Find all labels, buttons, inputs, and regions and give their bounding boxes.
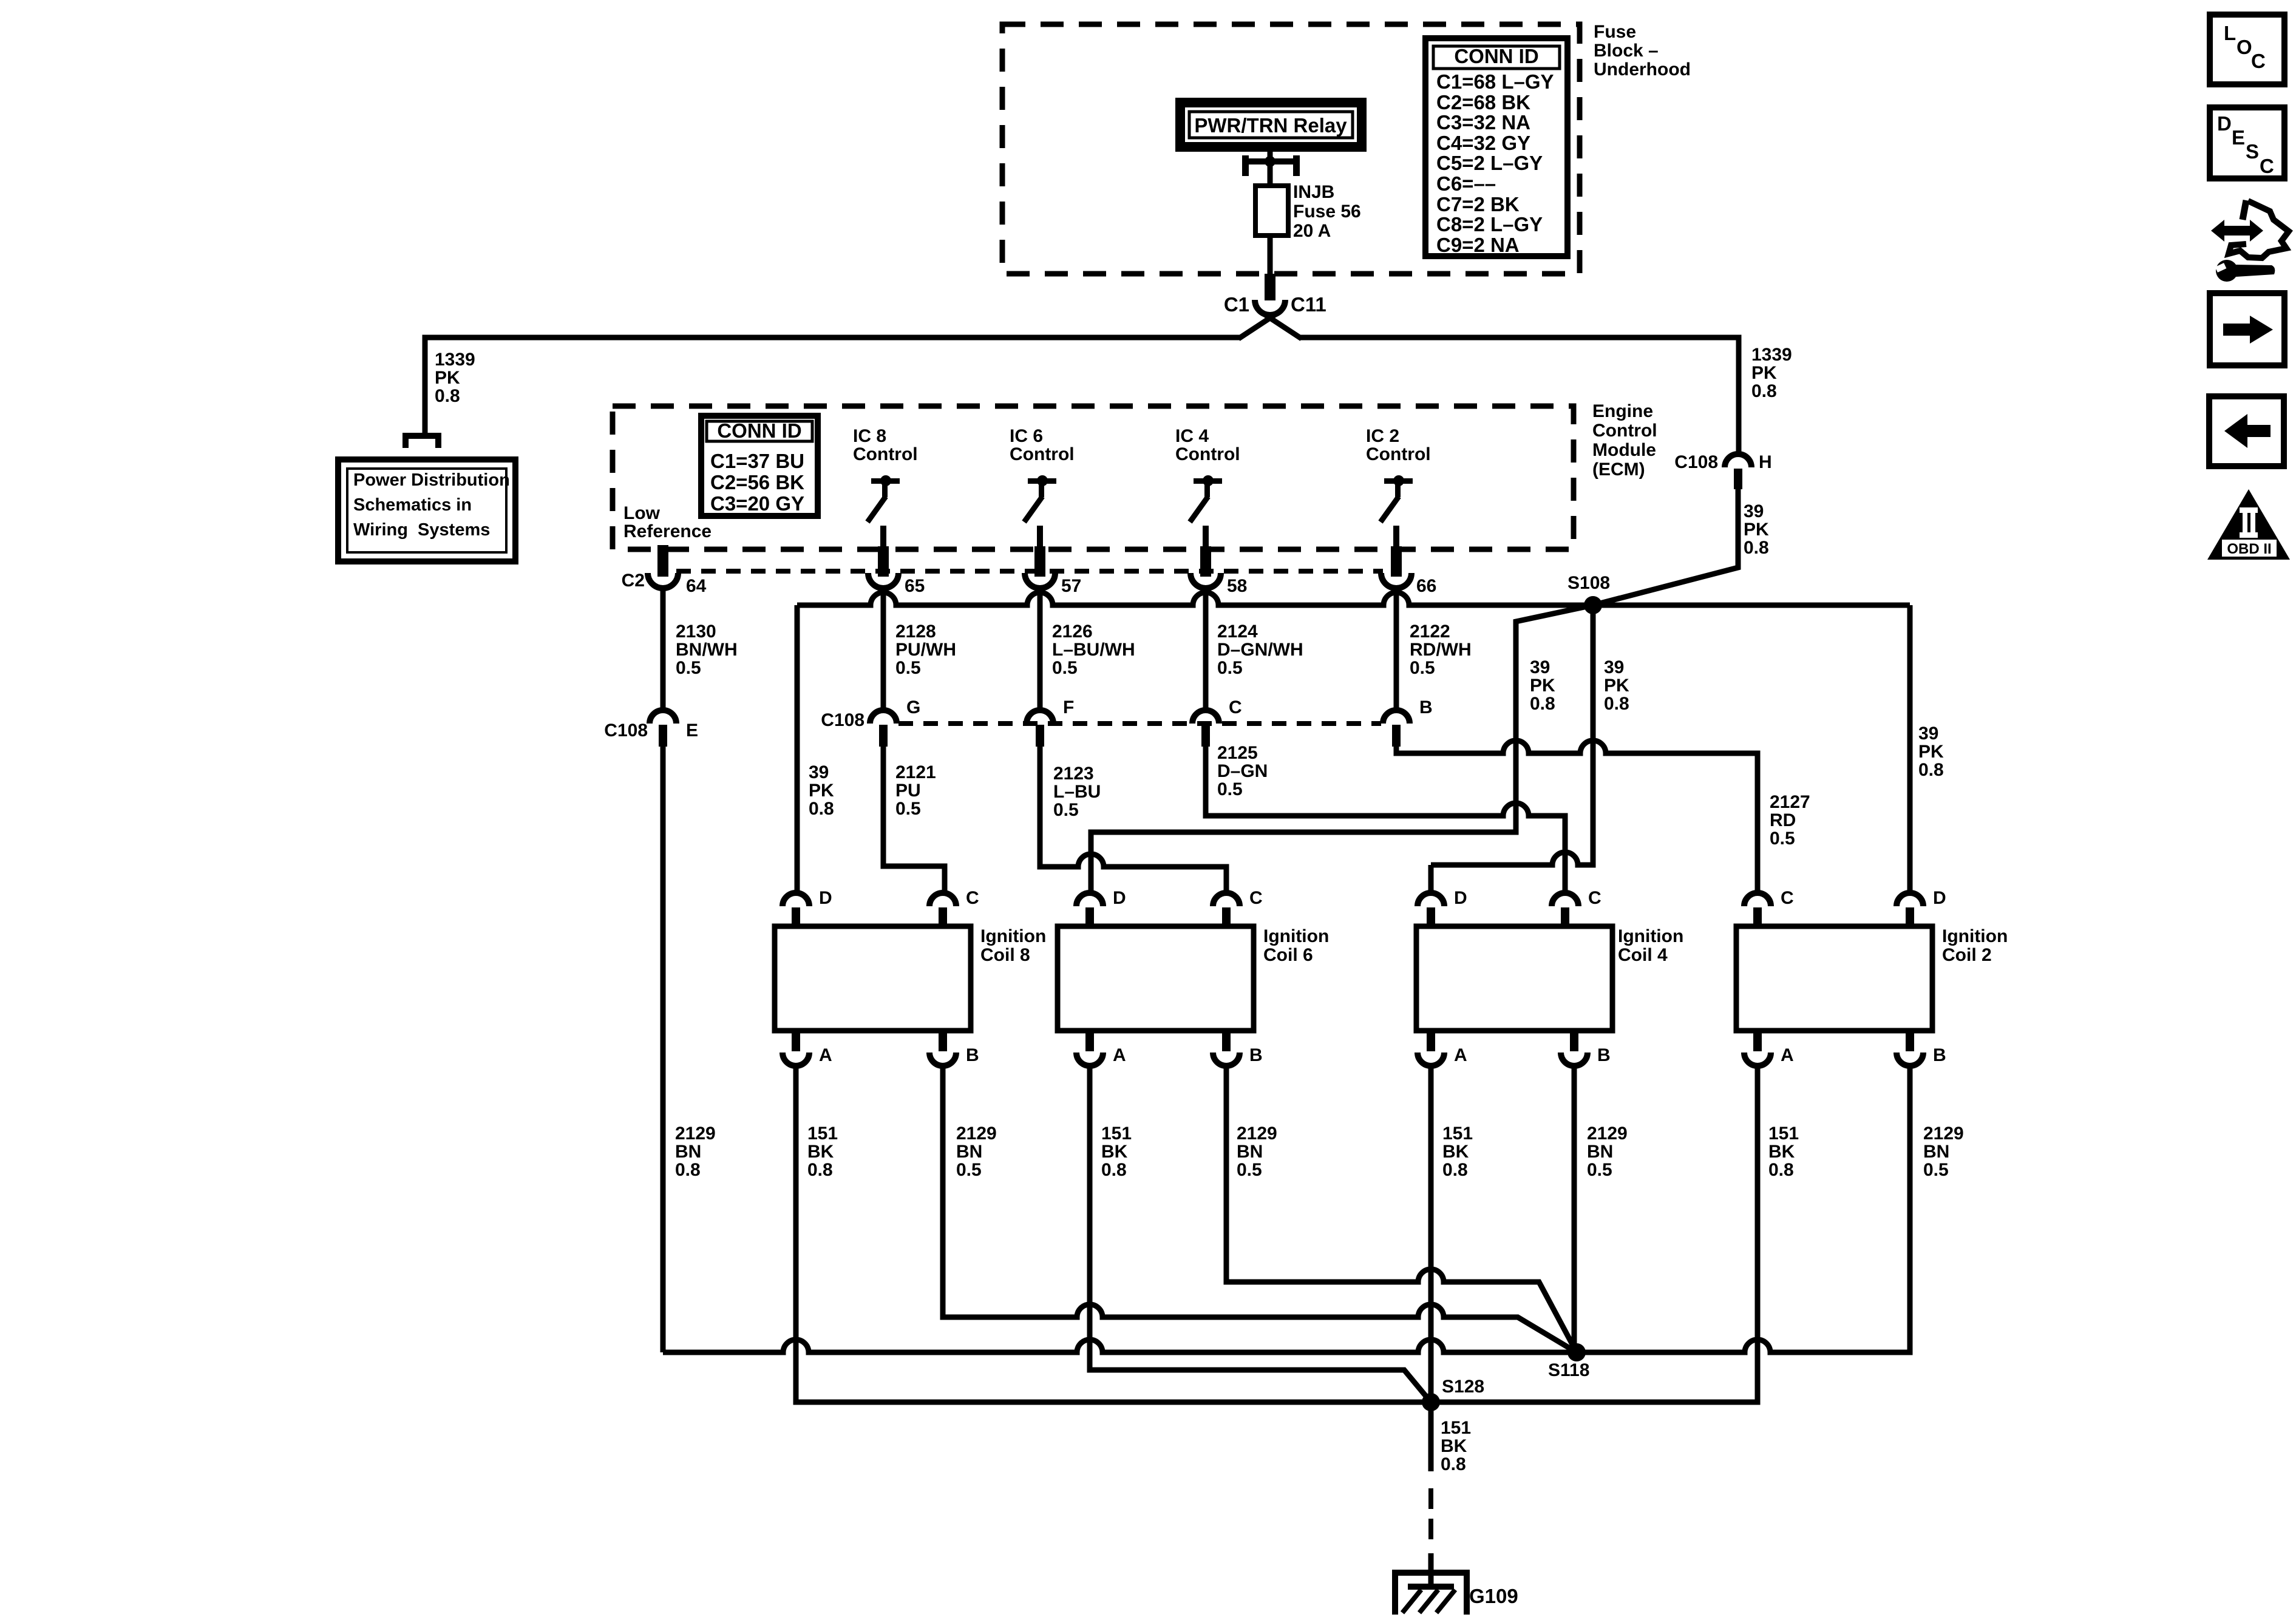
svg-text:58: 58	[1227, 576, 1247, 596]
svg-text:Ignition: Ignition	[1618, 926, 1683, 946]
coil 6 connector pin D (top)	[1076, 888, 1126, 927]
wire: 2121 PU from C108 G to coil 8 pin C	[883, 747, 945, 893]
coil 8 connector pin C (top)	[929, 888, 979, 927]
svg-text:151: 151	[1101, 1124, 1132, 1144]
inline connector C108 dashed row	[898, 721, 1381, 726]
wire: 1339 PK right rail to C108 H	[1299, 337, 1739, 453]
relay: PWR/TRN Relay	[1180, 103, 1362, 147]
svg-text:C1: C1	[1224, 293, 1249, 316]
coil 4 connector pin D (top)	[1418, 888, 1467, 927]
wire: 2127 RD from C108 B to coil 2 pin C	[1396, 741, 1758, 893]
svg-text:Coil 4: Coil 4	[1618, 945, 1668, 965]
svg-text:0.8: 0.8	[1768, 1160, 1794, 1180]
svg-text:0.5: 0.5	[1587, 1160, 1612, 1180]
svg-text:Coil 2: Coil 2	[1942, 945, 1992, 965]
wire: 2129 BN coil 8 B to S118	[943, 1066, 1577, 1352]
ignition coil 8 box	[775, 926, 1046, 1031]
svg-text:BK: BK	[1768, 1142, 1795, 1162]
svg-text:0.5: 0.5	[956, 1160, 982, 1180]
svg-text:151: 151	[1441, 1418, 1471, 1438]
wire: 39 PK from C108 H down to S108	[1593, 489, 1738, 605]
coil 8 connector pin A (bottom)	[783, 1031, 832, 1066]
svg-text:S128: S128	[1442, 1377, 1484, 1397]
svg-text:2129: 2129	[1587, 1124, 1628, 1144]
svg-text:39: 39	[1604, 657, 1624, 677]
svg-text:0.8: 0.8	[435, 386, 460, 406]
svg-text:Schematics in: Schematics in	[353, 495, 472, 515]
connector C108 pin F	[1027, 697, 1074, 747]
svg-text:0.8: 0.8	[1744, 538, 1769, 558]
wire: circuit 2128 from ECM pin to C108 G	[881, 586, 886, 710]
svg-text:S108: S108	[1567, 573, 1610, 593]
svg-text:66: 66	[1416, 576, 1436, 596]
connector C108 pin E	[604, 710, 698, 747]
coil 4 connector pin A (bottom)	[1418, 1031, 1467, 1066]
wire: circuit 2126 from ECM pin to C108 F	[1038, 586, 1043, 710]
svg-text:2122: 2122	[1410, 622, 1450, 642]
ECM connector pin 65	[868, 573, 925, 596]
svg-text:D: D	[1454, 888, 1467, 908]
wire: 39 PK S108 to ignition coil 4 pin D	[1431, 605, 1593, 865]
svg-text:RD/WH: RD/WH	[1410, 640, 1472, 660]
svg-text:Fuse: Fuse	[1594, 22, 1636, 42]
svg-text:BN: BN	[1923, 1142, 1949, 1162]
ground G109	[1392, 1570, 1470, 1615]
svg-text:BN: BN	[675, 1142, 701, 1162]
wire: 39 PK S108 to ignition coil 6 pin D	[1091, 605, 1593, 893]
svg-text:B: B	[1933, 1045, 1946, 1065]
wire: circuit 2130 from ECM pin to C108 E	[661, 586, 666, 710]
svg-text:C2=68 BK: C2=68 BK	[1436, 91, 1530, 114]
svg-text:Coil 6: Coil 6	[1263, 945, 1313, 965]
wire: circuit 2124 from ECM pin to C108 C	[1203, 586, 1209, 710]
svg-text:2129: 2129	[956, 1124, 997, 1144]
wire: 1339 PK left rail to Power Distribution	[425, 337, 1241, 433]
svg-text:Control: Control	[1592, 421, 1657, 441]
ECM connector pin 57	[1025, 573, 1081, 596]
svg-text:C: C	[1229, 697, 1242, 717]
ECM connector C2 pin 64	[622, 545, 707, 596]
coil 8 connector pin D (top)	[783, 888, 832, 927]
svg-text:57: 57	[1061, 576, 1081, 596]
svg-text:C: C	[2260, 155, 2274, 177]
svg-text:L–BU/WH: L–BU/WH	[1052, 640, 1135, 660]
svg-text:65: 65	[905, 576, 925, 596]
svg-text:0.8: 0.8	[1442, 1160, 1468, 1180]
svg-text:Wiring Systems: Wiring Systems	[353, 520, 490, 540]
svg-text:C9=2 NA: C9=2 NA	[1436, 234, 1520, 256]
svg-text:Control: Control	[1010, 444, 1075, 464]
svg-text:OBD II: OBD II	[2227, 541, 2271, 557]
svg-text:Fuse 56: Fuse 56	[1293, 202, 1361, 222]
svg-text:C2=56 BK: C2=56 BK	[710, 471, 804, 493]
wire: S118 to coil 2 B	[1577, 1066, 1910, 1352]
svg-text:D–GN/WH: D–GN/WH	[1217, 640, 1303, 660]
svg-text:Control: Control	[853, 444, 918, 464]
coil 2 connector pin B (bottom)	[1897, 1031, 1946, 1066]
svg-text:0.5: 0.5	[1237, 1160, 1262, 1180]
svg-text:0.5: 0.5	[676, 658, 701, 678]
svg-text:F: F	[1063, 697, 1074, 717]
svg-text:0.5: 0.5	[1053, 800, 1079, 820]
ECM connector C2 dotted row	[676, 569, 1383, 574]
svg-text:IC 6: IC 6	[1010, 426, 1043, 446]
coil 6 connector pin B (bottom)	[1213, 1031, 1263, 1066]
svg-text:L: L	[2224, 22, 2236, 44]
svg-text:0.5: 0.5	[1923, 1160, 1949, 1180]
svg-text:Reference: Reference	[623, 521, 712, 541]
svg-text:PU: PU	[895, 781, 921, 801]
svg-text:64: 64	[686, 576, 707, 596]
svg-text:0.5: 0.5	[895, 799, 921, 819]
wire: 151 BK coil 8 A to S128 bus	[796, 1066, 1422, 1402]
svg-text:CONN ID: CONN ID	[717, 419, 801, 442]
svg-text:2125: 2125	[1217, 743, 1258, 763]
ignition coil 2 box	[1736, 926, 2008, 1031]
svg-text:Module: Module	[1592, 440, 1656, 460]
connector C108 pin C	[1192, 697, 1242, 747]
switch: IC 4 Control (ECM driver)	[1175, 426, 1240, 577]
svg-text:2130: 2130	[676, 622, 716, 642]
svg-text:C: C	[1588, 888, 1601, 908]
svg-text:BN: BN	[956, 1142, 982, 1162]
svg-text:Power Distribution: Power Distribution	[353, 470, 510, 490]
splice S108	[1567, 573, 1610, 614]
ignition coil 6 box	[1058, 926, 1329, 1031]
wire: coil 4 D drop	[1428, 865, 1434, 893]
coil 2 connector pin C (top)	[1744, 888, 1794, 927]
wire: 39 PK bus from coil 8 D to coil 2 D	[797, 592, 1910, 605]
svg-text:BN/WH: BN/WH	[676, 640, 738, 660]
svg-text:0.5: 0.5	[1217, 779, 1243, 799]
svg-text:0.8: 0.8	[1530, 694, 1555, 714]
svg-text:0.5: 0.5	[1410, 658, 1435, 678]
svg-text:C11: C11	[1291, 293, 1326, 316]
svg-text:39: 39	[809, 762, 829, 782]
wire: 2125 D-GN from C108 C to coil 4 pin C	[1206, 747, 1565, 893]
coil 2 connector pin D (top)	[1897, 888, 1946, 927]
svg-text:A: A	[1454, 1045, 1467, 1065]
icon: DESC box	[2210, 107, 2284, 178]
svg-text:PU/WH: PU/WH	[895, 640, 956, 660]
svg-text:2128: 2128	[895, 622, 936, 642]
svg-text:Ignition: Ignition	[980, 926, 1046, 946]
svg-text:0.8: 0.8	[807, 1160, 833, 1180]
wire: 151 BK coil 6 A to S128	[1090, 1066, 1431, 1402]
svg-text:IC 2: IC 2	[1366, 426, 1399, 446]
svg-text:BK: BK	[1442, 1142, 1469, 1162]
svg-text:C108: C108	[604, 720, 648, 741]
svg-text:Underhood: Underhood	[1594, 59, 1691, 80]
svg-text:G109: G109	[1469, 1585, 1518, 1607]
svg-text:Control: Control	[1366, 444, 1431, 464]
switch: IC 6 Control (ECM driver)	[1010, 426, 1075, 577]
wire: X split below C1/C11	[1259, 311, 1302, 339]
svg-text:C: C	[1249, 888, 1263, 908]
svg-text:IC 8: IC 8	[853, 426, 886, 446]
svg-text:PWR/TRN Relay: PWR/TRN Relay	[1194, 114, 1347, 137]
svg-text:O: O	[2237, 36, 2252, 58]
wire: 39 PK down to ignition coil 8 pin D	[795, 605, 800, 893]
connector C108 pin B	[1383, 697, 1433, 747]
fuse F56: INJB Fuse 56 20 A	[1255, 164, 1288, 237]
wire: 39 PK / 2129 low ref from C108 E down to ground bus	[661, 747, 666, 1352]
svg-text:C1=68 L–GY: C1=68 L–GY	[1436, 70, 1554, 93]
svg-text:0.8: 0.8	[1604, 694, 1629, 714]
svg-text:C3=20 GY: C3=20 GY	[710, 492, 804, 515]
svg-text:PK: PK	[809, 781, 834, 801]
relay output terminal	[1242, 149, 1300, 176]
svg-text:H: H	[1759, 452, 1772, 472]
svg-text:151: 151	[1442, 1124, 1473, 1144]
splice S118	[1548, 1343, 1589, 1380]
CONN ID table (fuse block)	[1425, 38, 1567, 256]
connector C108 pin G	[821, 697, 920, 747]
wire: 2129 BN coil 6 B to S118	[1226, 1066, 1577, 1352]
svg-text:39: 39	[1530, 657, 1550, 677]
svg-text:D: D	[819, 888, 832, 908]
svg-text:151: 151	[1768, 1124, 1799, 1144]
svg-text:0.5: 0.5	[1052, 658, 1078, 678]
svg-text:39: 39	[1744, 501, 1764, 521]
svg-text:PK: PK	[1604, 676, 1629, 696]
svg-text:BK: BK	[807, 1142, 834, 1162]
svg-text:BK: BK	[1441, 1436, 1467, 1456]
svg-text:S: S	[2246, 140, 2259, 163]
wire: 39 PK down to ignition coil 2 pin D	[1907, 605, 1913, 893]
svg-text:L–BU: L–BU	[1053, 782, 1101, 802]
svg-text:0.5: 0.5	[895, 658, 921, 678]
icon: right arrow box	[2210, 293, 2284, 365]
svg-text:2127: 2127	[1770, 792, 1810, 812]
coil 4 connector pin C (top)	[1552, 888, 1601, 927]
svg-text:CONN ID: CONN ID	[1454, 45, 1538, 67]
wire: 2123 L-BU from C108 F to coil 6 pin C	[1040, 747, 1226, 893]
svg-text:PK: PK	[1751, 363, 1777, 383]
svg-text:1339: 1339	[1751, 345, 1792, 365]
svg-text:2121: 2121	[895, 762, 936, 782]
icon: left arrow box	[2209, 396, 2284, 466]
svg-text:151: 151	[807, 1124, 838, 1144]
svg-text:0.5: 0.5	[1770, 829, 1795, 849]
ignition coil 4 box	[1416, 926, 1683, 1031]
svg-text:Coil 8: Coil 8	[980, 945, 1030, 965]
svg-text:IC 4: IC 4	[1175, 426, 1209, 446]
svg-text:0.8: 0.8	[675, 1160, 701, 1180]
svg-text:D: D	[2217, 112, 2232, 135]
svg-text:C3=32 NA: C3=32 NA	[1436, 111, 1530, 134]
svg-text:G: G	[906, 697, 920, 717]
coil 2 connector pin A (bottom)	[1744, 1031, 1794, 1066]
svg-text:Control: Control	[1175, 444, 1240, 464]
CONN ID table (ECM)	[701, 416, 818, 516]
svg-text:39: 39	[1918, 724, 1938, 744]
svg-text:2129: 2129	[675, 1124, 716, 1144]
label: INJB Fuse 56 20 A	[1293, 182, 1361, 241]
connector C108 pin H	[1674, 452, 1771, 489]
ECM connector pin 58	[1190, 573, 1247, 596]
wire: circuit 2122 from ECM pin to C108 B	[1394, 586, 1399, 710]
box: Power Distribution Schematics in Wiring Systems	[338, 459, 515, 561]
svg-text:D–GN: D–GN	[1217, 761, 1268, 781]
svg-text:0.8: 0.8	[1441, 1454, 1466, 1474]
svg-text:Engine: Engine	[1592, 401, 1653, 421]
svg-text:B: B	[1249, 1045, 1263, 1065]
svg-text:C108: C108	[1674, 452, 1718, 472]
svg-text:E: E	[686, 720, 698, 741]
icon: OBD II triangle	[2207, 489, 2290, 560]
splice S128	[1422, 1377, 1484, 1411]
svg-text:C7=2 BK: C7=2 BK	[1436, 193, 1520, 215]
svg-text:0.8: 0.8	[1751, 381, 1777, 401]
svg-text:1339: 1339	[435, 350, 475, 370]
svg-text:A: A	[1781, 1045, 1794, 1065]
wire: fuse to connector C1	[1268, 236, 1273, 276]
svg-text:0.8: 0.8	[1918, 760, 1944, 780]
wire: 151 BK coil 2 A to S128 bus	[1431, 1066, 1758, 1402]
coil 4 connector pin B (bottom)	[1561, 1031, 1611, 1066]
ECM dashed box	[613, 406, 1574, 549]
svg-text:RD: RD	[1770, 810, 1796, 830]
svg-text:C1=37 BU: C1=37 BU	[710, 450, 804, 472]
svg-text:C2: C2	[622, 571, 645, 591]
icon: LOC box	[2210, 15, 2284, 84]
fuse block dashed box (Fuse Block - Underhood)	[1002, 24, 1580, 274]
svg-text:D: D	[1113, 888, 1126, 908]
svg-text:BN: BN	[1237, 1142, 1263, 1162]
ECM connector pin 66	[1381, 573, 1436, 596]
svg-text:0.5: 0.5	[1217, 658, 1243, 678]
svg-text:2129: 2129	[1237, 1124, 1277, 1144]
svg-text:0.8: 0.8	[809, 799, 834, 819]
svg-text:A: A	[1113, 1045, 1126, 1065]
svg-text:PK: PK	[1530, 676, 1555, 696]
wire: 151 BK coil 4 A to S128	[1428, 1066, 1434, 1402]
svg-text:B: B	[966, 1045, 979, 1065]
svg-text:20 A: 20 A	[1293, 221, 1331, 241]
svg-text:2126: 2126	[1052, 622, 1093, 642]
svg-text:INJB: INJB	[1293, 182, 1334, 202]
svg-text:D: D	[1933, 888, 1946, 908]
svg-text:C6=––: C6=––	[1436, 172, 1496, 195]
switch: IC 8 Control (ECM driver)	[853, 426, 918, 577]
svg-text:B: B	[1597, 1045, 1611, 1065]
svg-text:Ignition: Ignition	[1942, 926, 2008, 946]
svg-text:BN: BN	[1587, 1142, 1613, 1162]
label: Low Reference	[623, 503, 712, 541]
coil 6 connector pin C (top)	[1213, 888, 1263, 927]
svg-text:2123: 2123	[1053, 764, 1094, 784]
svg-text:(ECM): (ECM)	[1592, 459, 1645, 480]
svg-text:E: E	[2232, 126, 2245, 149]
svg-text:B: B	[1419, 697, 1433, 717]
wire: 2129 BN coil 4 B to S118	[1572, 1066, 1577, 1352]
label: Engine Control Module (ECM)	[1592, 401, 1657, 480]
svg-text:C: C	[1781, 888, 1794, 908]
off-page connector bracket	[402, 433, 441, 448]
wire: 151 BK from S128 to ground (with inline break)	[1428, 1402, 1434, 1471]
svg-text:PK: PK	[1744, 520, 1769, 540]
svg-text:C: C	[2251, 50, 2266, 72]
svg-text:Block –: Block –	[1594, 41, 1659, 61]
svg-text:Ignition: Ignition	[1263, 926, 1329, 946]
switch: IC 2 Control (ECM driver)	[1366, 426, 1431, 577]
svg-text:S118: S118	[1548, 1360, 1589, 1380]
coil 6 connector pin A (bottom)	[1076, 1031, 1126, 1066]
svg-text:C5=2 L–GY: C5=2 L–GY	[1436, 152, 1543, 174]
icon: harness/wrench diagnostic symbol	[2211, 200, 2289, 282]
svg-text:0.8: 0.8	[1101, 1160, 1127, 1180]
svg-text:PK: PK	[1918, 742, 1944, 762]
svg-text:C4=32 GY: C4=32 GY	[1436, 132, 1530, 154]
svg-text:2129: 2129	[1923, 1124, 1964, 1144]
wire: low reference 2129 bus to S118	[663, 1340, 1577, 1352]
svg-text:PK: PK	[435, 368, 460, 388]
svg-text:C8=2 L–GY: C8=2 L–GY	[1436, 213, 1543, 236]
svg-text:C108: C108	[821, 710, 864, 730]
svg-text:A: A	[819, 1045, 832, 1065]
connector C1 / C11	[1224, 293, 1326, 316]
label: Fuse Block - Underhood	[1594, 22, 1691, 80]
svg-text:C: C	[966, 888, 979, 908]
svg-text:Low: Low	[623, 503, 661, 523]
coil 8 connector pin B (bottom)	[929, 1031, 979, 1066]
svg-text:2124: 2124	[1217, 622, 1258, 642]
svg-text:BK: BK	[1101, 1142, 1128, 1162]
